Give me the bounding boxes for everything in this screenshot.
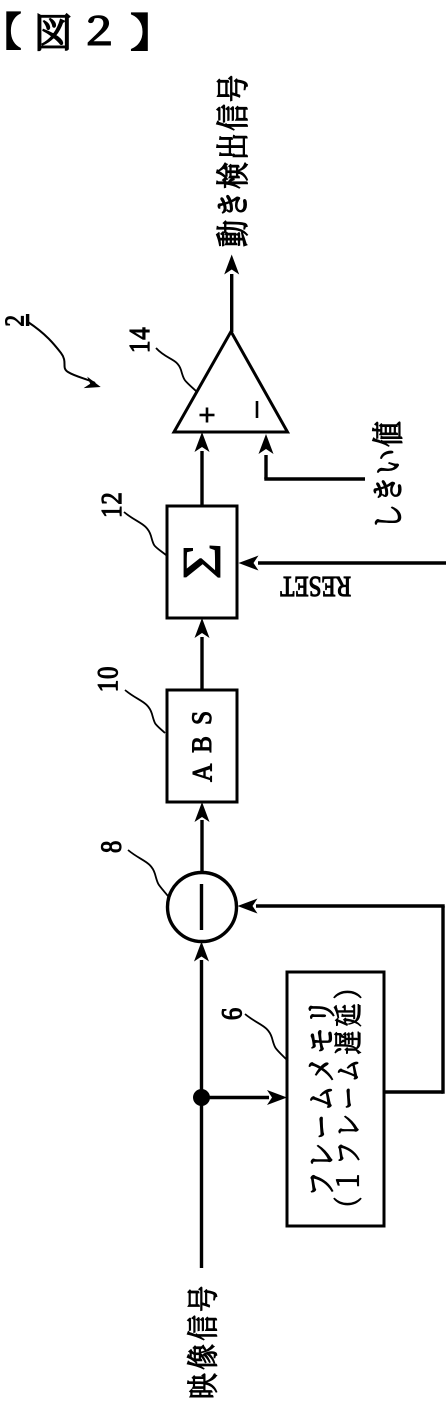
block: accumulator sigma 12 xyxy=(167,506,237,618)
wire: frame memory output down xyxy=(384,1090,443,1093)
label: reference numeral 6 xyxy=(222,1009,241,1020)
subtractor 8 (circle with minus) xyxy=(168,873,237,942)
leader line to sigma 12 xyxy=(124,512,166,555)
block: frame memory 6 (1-frame delay) xyxy=(287,972,384,1226)
wire: RESET input xyxy=(239,556,446,571)
plus sign at comparator input xyxy=(200,408,215,423)
leader arrow from reference 2 to diagram xyxy=(28,322,101,388)
node: junction dot on video signal line xyxy=(193,1089,210,1106)
label: （１フレーム遅延） line 2 xyxy=(334,991,361,1205)
label: RESET xyxy=(281,577,351,596)
leader line to comparator 14 xyxy=(156,348,196,391)
leader line to subtractor 8 xyxy=(128,850,168,896)
label: 映像信号 (video signal input) xyxy=(187,1287,216,1397)
label: しきい値 (threshold) xyxy=(373,422,402,524)
figure caption 【図２】 xyxy=(7,12,147,50)
label: reference numeral 14 xyxy=(130,328,149,351)
wire: video signal input line xyxy=(194,942,209,1269)
wire: feedback up into subtractor xyxy=(238,899,445,914)
wire: feedback horizontal xyxy=(441,906,444,1094)
label: reference numeral 10 xyxy=(98,668,118,691)
comparator 14 (triangle) xyxy=(174,332,288,433)
wire: ABS to sigma xyxy=(195,618,210,690)
wire: tap from junction to frame memory xyxy=(202,1090,288,1105)
wire: comparator output xyxy=(224,255,239,333)
wire: threshold into minus input xyxy=(259,434,366,479)
leader line to frame memory 6 xyxy=(245,1014,288,1061)
wire: subtractor to ABS xyxy=(195,802,210,873)
underline for reference 2 xyxy=(26,314,29,326)
minus sign at comparator input xyxy=(256,401,259,418)
label: フレームメモリ line 1 xyxy=(309,1006,334,1192)
block: ABS 10 xyxy=(167,690,237,802)
leader line to ABS 10 xyxy=(125,690,165,733)
label: reference numeral 12 xyxy=(102,494,121,516)
label: 動き検出信号 (motion detection signal) xyxy=(217,76,248,246)
label: figure reference numeral 2 xyxy=(6,316,24,325)
wire: sigma to comparator plus input xyxy=(195,432,210,506)
label: reference numeral 8 xyxy=(101,842,121,852)
